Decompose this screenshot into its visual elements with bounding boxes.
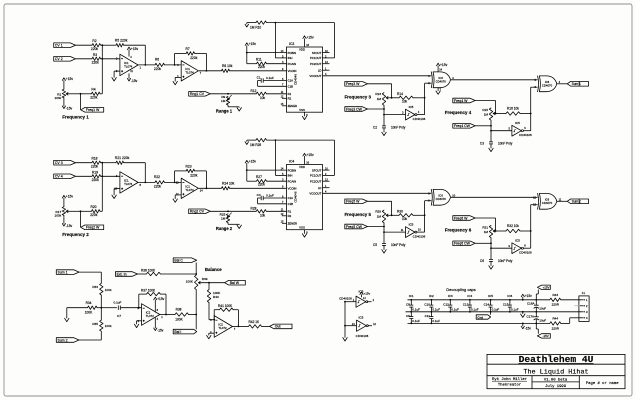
wire [124, 162, 146, 164]
resistor R44 220R [550, 322, 561, 325]
svg-text:PCBIN: PCBIN [288, 168, 297, 172]
resistor R8 10k [222, 69, 230, 72]
svg-text:Freq6 W: Freq6 W [454, 216, 468, 220]
wire to VCOIN [230, 187, 287, 189]
svg-text:Freq4 W: Freq4 W [454, 99, 468, 103]
svg-text:R14: R14 [397, 92, 403, 96]
resistor R38 100K [175, 313, 189, 316]
resistor R5 220k (feedback) [116, 44, 124, 47]
label tag Freq4 W [453, 98, 475, 103]
resistor R33 100k [100, 283, 103, 295]
svg-text:PC2OUT: PC2OUT [310, 179, 322, 183]
svg-text:C13: C13 [463, 302, 469, 306]
wire pot wiper [493, 112, 495, 114]
svg-text:220k: 220k [154, 185, 162, 189]
wire [475, 217, 495, 219]
ground (op-amp A + input) [114, 188, 120, 190]
label tag Freq3 W [345, 82, 368, 87]
capacitor C3 10nF Poly [489, 141, 493, 143]
wire [165, 64, 182, 66]
input tag Ext. In [115, 272, 137, 277]
node [383, 114, 385, 116]
ground (timing cap) [382, 132, 386, 135]
schmitt inverter IC5 (5-6) [512, 125, 522, 136]
svg-text:C2: C2 [373, 126, 377, 130]
wire [101, 58, 120, 60]
svg-text:R1: R1 [288, 92, 292, 96]
power rail +15v [408, 299, 550, 301]
svg-text:Rng1 CV: Rng1 CV [190, 92, 205, 96]
svg-text:CD40106: CD40106 [519, 133, 532, 137]
svg-text:R36 100K: R36 100K [141, 268, 156, 272]
resistor R22 220k [155, 181, 165, 184]
potentiometer R17 100k [62, 207, 65, 216]
label tag Bal I [173, 329, 197, 334]
power +15v (spare gate) [361, 294, 363, 297]
capacitor C9 0.1uF [410, 312, 412, 317]
potentiometer R39 100K (Balance) [195, 275, 198, 290]
XOR gate IC6 CD4070 (fourth) [538, 193, 539, 209]
wire [76, 162, 93, 164]
wire [76, 44, 93, 46]
svg-text:1M: 1M [484, 113, 489, 117]
wire [368, 325, 372, 327]
ground (gate pin 7) [437, 88, 439, 91]
svg-text:+15v: +15v [249, 160, 257, 164]
node [383, 231, 385, 233]
node [206, 70, 208, 72]
svg-text:Out: Out [275, 325, 281, 329]
output tag Out [270, 324, 292, 329]
svg-text:IC5: IC5 [488, 294, 493, 298]
ground (timing cap) [489, 266, 493, 269]
svg-text:R15: R15 [482, 108, 488, 112]
op-amp IC1A TL074 [120, 54, 138, 75]
input tag CV 3 [54, 160, 76, 165]
wire [100, 331, 102, 340]
svg-text:TL074: TL074 [185, 70, 194, 74]
svg-text:R11: R11 [256, 57, 262, 61]
svg-text:+15v: +15v [363, 292, 370, 296]
svg-text:R2: R2 [288, 97, 292, 101]
node wiper junction [80, 93, 82, 95]
svg-text:220R: 220R [552, 303, 560, 307]
wire schmitt input [384, 114, 406, 116]
svg-text:220k: 220k [190, 174, 198, 178]
svg-text:R32 10k: R32 10k [507, 224, 519, 228]
node [490, 125, 492, 127]
svg-text:CD40106: CD40106 [413, 234, 426, 238]
wire to INH [274, 23, 276, 58]
power +15v (pot top) [63, 80, 65, 89]
svg-text:Bal C: Bal C [174, 259, 183, 263]
wire pot wiper [66, 93, 68, 95]
resistor R3 220k [92, 57, 101, 60]
capacitor C13 0.1uF [469, 300, 471, 305]
power tag +15V [537, 285, 550, 289]
svg-text:0.1uF: 0.1uF [511, 307, 519, 311]
svg-text:Decoupling caps: Decoupling caps [446, 287, 476, 292]
svg-text:220k: 220k [92, 60, 100, 64]
svg-text:PC1OUT: PC1OUT [310, 56, 322, 60]
svg-text:0.1uF: 0.1uF [492, 307, 500, 311]
svg-text:ZENER: ZENER [288, 222, 297, 226]
svg-text:C1B: C1B [288, 85, 294, 89]
label tag Freq6 CW [453, 241, 475, 246]
label tag Bal C [173, 258, 197, 263]
node [344, 325, 346, 327]
svg-text:CD40106: CD40106 [413, 117, 426, 121]
svg-text:PC2OUT: PC2OUT [310, 62, 322, 66]
svg-text:10uF: 10uF [539, 307, 546, 311]
resistor R30 10k [399, 214, 413, 217]
svg-text:R34: R34 [86, 301, 92, 305]
wire XOR2 input2 [531, 86, 538, 88]
node [275, 139, 277, 141]
svg-text:220k: 220k [90, 213, 98, 217]
svg-text:R27: R27 [256, 175, 262, 179]
svg-text:1M: 1M [377, 215, 382, 219]
svg-text:IC5: IC5 [515, 121, 520, 125]
wire [101, 162, 116, 164]
wire schmitt output [523, 130, 530, 132]
node [227, 210, 229, 212]
svg-text:R6: R6 [155, 57, 159, 61]
svg-text:R5 220k: R5 220k [115, 39, 128, 43]
resistor R14 10k [399, 96, 413, 99]
svg-text:-15v: -15v [525, 326, 532, 330]
ground (VSS pin 8) [304, 230, 306, 234]
node [495, 113, 497, 115]
svg-text:-15V: -15V [543, 334, 549, 338]
svg-text:INH: INH [288, 174, 293, 178]
resistor R34 100K [88, 306, 98, 309]
svg-text:CV 1: CV 1 [55, 44, 63, 48]
svg-text:220R: 220R [552, 327, 560, 331]
potentiometer R29 1M [382, 210, 385, 223]
ground (op-amp A + input) [114, 70, 120, 72]
input tag CV 4 [54, 174, 76, 179]
wire [101, 175, 120, 177]
svg-text:Bal W: Bal W [230, 281, 240, 285]
capacitor C16A 10uF [535, 300, 537, 305]
svg-text:VDD: VDD [299, 48, 305, 52]
power +15v (op-amp A) [128, 50, 130, 57]
net tag Sum 1 [567, 82, 588, 87]
node [383, 108, 385, 110]
wire [76, 175, 93, 177]
resistor R2 220k [92, 44, 101, 47]
wire [392, 214, 399, 216]
wire schmitt output [417, 114, 425, 116]
wire to PC1OUT [334, 23, 336, 58]
svg-text:R2: R2 [92, 39, 96, 43]
resistor R21 220k (feedback) [116, 161, 124, 164]
svg-text:0.1uF: 0.1uF [451, 307, 459, 311]
PLL IC3 CD4046 [287, 47, 323, 112]
svg-text:IC5: IC5 [409, 223, 414, 227]
power +15v (PCBIN pull) [245, 160, 248, 163]
svg-text:0.1uF: 0.1uF [412, 307, 420, 311]
svg-text:1M R10: 1M R10 [250, 26, 261, 30]
resistor R37 100K (feedback) [138, 294, 140, 308]
svg-text:100K: 100K [175, 317, 183, 321]
node [165, 314, 167, 316]
power -15v (pot bottom) [63, 98, 65, 106]
svg-text:Gnd: Gnd [477, 315, 483, 319]
svg-text:V1.00 beta: V1.00 beta [544, 378, 568, 383]
svg-text:Rng2 CV: Rng2 CV [190, 210, 205, 214]
input tag Sum 1 (mixer) [56, 270, 79, 275]
schmitt inverter IC5 spare (13-12) [357, 320, 367, 331]
connector pin 2 [580, 305, 583, 307]
connector pin 3 [580, 311, 583, 313]
wire [475, 100, 495, 102]
svg-text:Freq3 CW: Freq3 CW [346, 107, 363, 111]
wire [368, 83, 392, 85]
svg-text:C14: C14 [484, 302, 490, 306]
svg-text:Frequency 6: Frequency 6 [445, 228, 472, 233]
svg-text:Range 2: Range 2 [216, 226, 233, 231]
svg-text:Frequency 2: Frequency 2 [62, 232, 89, 237]
resistor R28 10k [256, 210, 266, 213]
svg-text:+15V: +15V [543, 286, 550, 290]
svg-text:Freq3 W: Freq3 W [346, 82, 360, 86]
svg-text:1M R26: 1M R26 [250, 143, 261, 147]
svg-text:TL072: TL072 [218, 326, 227, 330]
op-amp IC1B TL074 [181, 178, 198, 198]
svg-text:0.1uF: 0.1uF [432, 319, 440, 323]
power +15v (PCBIN pull) [245, 43, 248, 46]
node wiper junction [80, 210, 82, 212]
wire [101, 44, 116, 46]
ground (op-amp B + input) [175, 76, 181, 78]
wire [101, 307, 117, 309]
wire [121, 307, 142, 309]
node [138, 307, 140, 309]
svg-text:100k: 100k [105, 288, 112, 292]
wire pot wiper [66, 210, 68, 212]
label tag Freq4 CW [453, 124, 475, 129]
svg-text:10nF Poly: 10nF Poly [391, 243, 406, 247]
svg-text:Bal I: Bal I [174, 330, 181, 334]
wire [367, 301, 371, 303]
wire [165, 181, 182, 183]
svg-text:-15v: -15v [157, 329, 164, 333]
svg-text:ZENER: ZENER [288, 104, 297, 108]
svg-text:IC4: IC4 [467, 294, 472, 298]
svg-text:R12: R12 [251, 89, 257, 93]
node [213, 319, 215, 321]
node [383, 226, 385, 228]
svg-text:TL072: TL072 [146, 314, 155, 318]
op-amp IC1A TL074 [120, 172, 138, 194]
resistor R42 1K [249, 325, 262, 328]
svg-text:0.1uF: 0.1uF [471, 307, 479, 311]
label tag Rng1 CV [189, 92, 211, 97]
svg-text:C16A: C16A [527, 301, 535, 305]
svg-text:+15v: +15v [440, 63, 448, 67]
op-amp IC2A TL072 [142, 304, 160, 326]
wire [561, 299, 581, 301]
svg-text:220k: 220k [258, 183, 265, 187]
label tag Freq3 CW [345, 107, 368, 112]
node [195, 314, 197, 316]
wire [247, 180, 257, 182]
wire XOR4 input2 [531, 204, 538, 206]
capacitor C10 0.1uF [430, 300, 432, 305]
svg-text:220k: 220k [154, 67, 162, 71]
svg-text:220k: 220k [190, 56, 198, 60]
svg-text:220k: 220k [91, 164, 99, 168]
capacitor C2 10nF Poly [382, 125, 386, 127]
ground (timing cap) [489, 148, 493, 151]
wire [475, 242, 491, 244]
svg-text:R21 220k: R21 220k [115, 156, 130, 160]
wire [81, 210, 92, 212]
svg-text:C7: C7 [117, 314, 121, 318]
wire [561, 322, 570, 324]
svg-text:0.1uF: 0.1uF [412, 319, 420, 323]
node [208, 282, 210, 284]
node [490, 242, 492, 244]
svg-text:10nF Poly: 10nF Poly [498, 142, 513, 146]
svg-text:+15v: +15v [157, 297, 164, 301]
node [490, 130, 492, 132]
svg-text:R30: R30 [397, 210, 403, 214]
wire [79, 271, 101, 273]
wire IC2A output [160, 314, 175, 316]
connector pin2 stub [575, 305, 581, 307]
svg-text:Page # or name: Page # or name [586, 382, 619, 386]
wire [97, 307, 101, 309]
wire schmitt output [417, 231, 425, 233]
ground (rail) [522, 312, 524, 314]
svg-text:VDD: VDD [299, 165, 305, 169]
svg-text:+15v: +15v [66, 77, 74, 81]
svg-text:R19: R19 [92, 171, 98, 175]
svg-text:R23: R23 [186, 165, 192, 169]
node [530, 113, 532, 115]
svg-text:CD4046: CD4046 [294, 191, 298, 202]
svg-text:10nF Poly: 10nF Poly [498, 259, 513, 263]
wire XOR1 out to XOR2 [451, 79, 538, 81]
wire schmitt input [491, 130, 512, 132]
node summing [101, 175, 103, 177]
svg-text:TL074: TL074 [124, 65, 133, 69]
power -15v (rail) [522, 323, 524, 326]
svg-text:-15v: -15v [131, 79, 138, 83]
input tag Sum 2 (mixer) [56, 338, 79, 343]
ground (op-amp B + input) [175, 194, 181, 196]
svg-text:C17A: C17A [526, 315, 534, 319]
svg-text:CD40106: CD40106 [339, 296, 352, 300]
node [424, 97, 426, 99]
wire to PCBIN [247, 169, 287, 171]
node op-amp B inverting [174, 182, 176, 184]
label tag Freq5 CW [345, 224, 368, 229]
svg-text:TL074: TL074 [185, 188, 194, 192]
title block frame [487, 354, 625, 388]
wire [392, 97, 399, 99]
wire [368, 200, 392, 202]
svg-text:SFOUT: SFOUT [312, 51, 322, 55]
svg-text:-15v: -15v [66, 224, 73, 228]
wire [266, 93, 286, 95]
svg-text:R24 10k: R24 10k [222, 182, 235, 186]
svg-text:Freq5 W: Freq5 W [346, 200, 360, 204]
label tag Freq2 W [80, 211, 82, 227]
svg-text:CD40106: CD40106 [519, 250, 532, 254]
power +15v (IC2A) [154, 300, 156, 313]
svg-text:IC3: IC3 [448, 294, 453, 298]
svg-text:C15: C15 [503, 302, 509, 306]
power +15v (rail) [521, 294, 524, 297]
wire summing vertical [101, 45, 103, 94]
schmitt inverter IC5 spare (1-2) [356, 296, 366, 307]
svg-text:CV 3: CV 3 [55, 161, 63, 165]
node [344, 301, 346, 303]
capacitor C8 0.1uF [410, 300, 412, 305]
ground (spare gate inputs) [343, 338, 347, 341]
node summing-top [101, 162, 103, 164]
svg-text:LD: LD [318, 186, 322, 190]
svg-text:VCOIN: VCOIN [288, 69, 297, 73]
wire op-amp B output [199, 187, 222, 189]
wire XOR3 out to XOR4 [451, 196, 538, 198]
node summing [101, 58, 103, 60]
power rail -15v [408, 322, 550, 324]
svg-text:R22: R22 [154, 175, 160, 179]
connector J1 [579, 296, 589, 322]
op-amp IC1B TL074 [181, 61, 198, 81]
wire [208, 303, 210, 320]
power +15v (VDD pin 16) [304, 156, 306, 165]
svg-text:July 1999: July 1999 [545, 384, 567, 389]
node mixer sum [100, 307, 102, 309]
capacitor C6 10nF Poly [489, 258, 493, 260]
svg-text:C4: C4 [257, 193, 261, 197]
svg-text:1M: 1M [221, 99, 226, 103]
connector pin 4 [580, 317, 583, 319]
resistor R6 220k [155, 63, 165, 66]
svg-text:0.1uF: 0.1uF [266, 76, 274, 80]
svg-text:CV 2: CV 2 [55, 57, 63, 61]
label tag Freq6 W [453, 216, 475, 221]
svg-text:R39: R39 [202, 277, 208, 281]
svg-text:R44: R44 [552, 317, 558, 321]
power +15v (pot top) [63, 198, 65, 207]
wire [262, 325, 270, 327]
svg-text:PC1OUT: PC1OUT [310, 174, 322, 178]
svg-text:R28: R28 [251, 207, 257, 211]
svg-text:R35: R35 [92, 322, 98, 326]
wire [266, 210, 286, 212]
capacitor C4 0.1uF [264, 197, 287, 199]
svg-text:CD4070: CD4070 [542, 83, 553, 87]
ground (timing cap) [382, 250, 386, 253]
svg-text:+15v: +15v [249, 42, 257, 46]
svg-text:IC5: IC5 [359, 316, 364, 320]
XOR gate IC6 CD4070 (third) [431, 189, 432, 205]
svg-text:R20: R20 [90, 205, 96, 209]
schmitt inverter IC5 (9-8) [512, 243, 522, 254]
PLL IC4 CD4046 [287, 165, 323, 230]
svg-text:IC6: IC6 [507, 294, 512, 298]
wire schmitt output [523, 247, 530, 249]
node [424, 214, 426, 216]
resistor R12 10k [256, 92, 266, 95]
